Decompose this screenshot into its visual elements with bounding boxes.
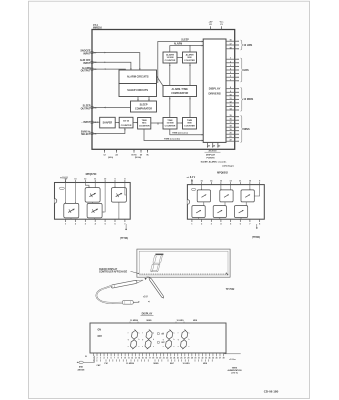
tick mark 137.88: [137, 359, 139, 361]
pin 33 board: [205, 353, 207, 356]
pin 1 bottom: [191, 219, 193, 222]
svg-text:MPQ6700: MPQ6700: [86, 173, 97, 176]
ground dot fig2: [125, 229, 127, 231]
tick mark 96.94: [96, 359, 98, 361]
pin 18 segment output: [226, 48, 239, 50]
svg-text:5: 5: [107, 358, 108, 360]
svg-text:29: 29: [191, 358, 193, 360]
svg-text:6: 6: [240, 223, 241, 225]
svg-text:11: 11: [229, 98, 231, 100]
block: time 10-min counter: [163, 118, 177, 130]
svg-text:CONTROLER AFFICHAGE: CONTROLER AFFICHAGE: [99, 271, 128, 274]
wire sleep circuits to comparator: [137, 97, 139, 102]
svg-text:1: 1: [191, 223, 192, 225]
right rail +5V: [224, 353, 241, 355]
pin 14 top: [65, 180, 67, 183]
svg-text:50/ 60: 50/ 60: [123, 121, 130, 123]
svg-text:36: 36: [216, 358, 218, 360]
svg-text:SLEEP CIRCUITS: SLEEP CIRCUITS: [127, 89, 148, 92]
pin tick 17: [91, 52, 93, 54]
tick mark 141.32: [140, 359, 142, 361]
pin 9 board: [121, 353, 123, 356]
pin 16 segment output: [226, 40, 239, 42]
pin 28 board: [187, 353, 189, 356]
svg-text:21: 21: [229, 136, 231, 138]
pin 1 segment output: [226, 58, 239, 60]
svg-text:16: 16: [229, 119, 231, 121]
block: 50/60 counter: [119, 117, 133, 128]
probe cable: [96, 286, 122, 303]
svg-text:OUTPUT: OUTPUT: [81, 70, 91, 73]
pin 11 top: [239, 182, 241, 185]
wire sleep circuits to comparator 2: [148, 97, 150, 102]
svg-text:DISPLAY: DISPLAY: [209, 87, 221, 91]
tick mark 119.76: [119, 359, 121, 361]
svg-text:10 HRS: 10 HRS: [182, 363, 190, 365]
wire connector to clip: [133, 301, 138, 303]
arrow label to strip: [131, 271, 140, 273]
svg-text:25: 25: [177, 358, 179, 360]
svg-text:11: 11: [239, 181, 241, 183]
pin tick 36: [91, 132, 93, 134]
pin 16 segment output: [226, 119, 239, 121]
arrow to anode: [77, 361, 79, 363]
pin tick 15: [91, 68, 93, 70]
pin 11 board: [128, 353, 130, 356]
pin select 60: [140, 149, 142, 152]
wire pin14 to Q3: [65, 183, 67, 204]
transistor Q8: [192, 206, 205, 218]
wire Q7 to Q10: [245, 202, 247, 206]
tick mark 181.76: [181, 359, 183, 361]
arrow at junction left: [148, 301, 150, 303]
pin 3 board: [100, 353, 102, 356]
pin 2 board: [96, 353, 98, 356]
svg-text:3: 3: [211, 223, 212, 225]
display module outline: [137, 249, 230, 277]
svg-text:17: 17: [229, 44, 231, 46]
tick mark 148.2: [147, 359, 149, 361]
tick mark 109.44: [108, 359, 110, 361]
brace group 10 MINS: [241, 88, 244, 112]
svg-text:16: 16: [191, 181, 193, 183]
svg-text:8: 8: [124, 178, 125, 180]
svg-text:10 HRS: 10 HRS: [176, 320, 184, 322]
svg-text:ALARM: ALARM: [174, 42, 182, 45]
pin 12 top: [84, 180, 86, 183]
svg-text:+5 V: +5 V: [143, 296, 148, 298]
digit minutes: [142, 329, 154, 349]
pin 6 segment output: [226, 76, 239, 78]
needle probe: [148, 276, 164, 298]
svg-text:22: 22: [229, 140, 231, 142]
svg-text:5: 5: [230, 72, 231, 74]
wire pin11 to Q1: [94, 183, 96, 188]
pin 11 segment output: [226, 98, 239, 100]
pin select 24: [116, 149, 118, 152]
svg-text:7: 7: [249, 223, 250, 225]
svg-text:19: 19: [229, 129, 231, 131]
brace group MINS: [241, 116, 244, 143]
pin 8 top: [124, 180, 126, 183]
svg-text:18: 18: [152, 358, 154, 360]
pin 20 segment output: [226, 133, 239, 135]
svg-text:37: 37: [219, 358, 221, 360]
pin 9 top: [114, 180, 116, 183]
block: display drivers: [203, 39, 226, 142]
resistor R (anode feed): [79, 361, 83, 363]
svg-text:18: 18: [229, 47, 231, 49]
svg-text:b: b: [139, 339, 140, 341]
IC outline (clock chip block diagram): [92, 30, 235, 150]
pin tick 14: [91, 106, 93, 108]
svg-text:12: 12: [84, 178, 86, 180]
svg-text:13: 13: [229, 105, 231, 107]
pin 32 board: [201, 353, 203, 356]
pin 30 display point: [217, 142, 219, 147]
tick mark 168.0: [167, 359, 169, 361]
block: time seconds counter: [138, 118, 151, 130]
pin 7 segment output: [226, 80, 239, 82]
test probe pen: [111, 279, 144, 288]
pin 13 top: [74, 180, 76, 183]
tick mark 201.88: [201, 359, 203, 361]
svg-text:18: 18: [94, 62, 96, 64]
pin 16 top: [191, 182, 193, 185]
pin 21 (top): [221, 26, 223, 29]
pin 6 bottom: [239, 219, 241, 222]
pin 14 top: [210, 182, 212, 185]
pin 7 bottom: [124, 219, 126, 222]
svg-text:ALARM CIRCUITS: ALARM CIRCUITS: [127, 76, 149, 79]
svg-text:31: 31: [198, 358, 200, 360]
svg-text:10 MIN: 10 MIN: [167, 57, 174, 59]
svg-text:DISPLAY: DISPLAY: [206, 154, 216, 157]
svg-text:ON: ON: [98, 330, 102, 332]
wire pin12 to Q6b: [230, 185, 232, 190]
svg-text:HRS: HRS: [243, 69, 249, 72]
wire to LED anode: [83, 356, 94, 363]
wire alarm off: [92, 62, 131, 70]
svg-text:7: 7: [114, 358, 115, 360]
svg-text:4: 4: [104, 357, 105, 360]
pin 17 segment output: [226, 44, 239, 46]
svg-text:TP 7002: TP 7002: [226, 289, 235, 291]
transistor Q9: [213, 206, 226, 218]
svg-text:36: 36: [94, 133, 96, 135]
wire time counter 1 to 2: [177, 122, 183, 124]
svg-text:13: 13: [74, 178, 76, 180]
svg-text:10 HRS: 10 HRS: [243, 44, 252, 47]
wire Q4 to pin4: [94, 218, 96, 219]
svg-text:b: b: [153, 339, 154, 341]
tick mark 212.2: [211, 359, 213, 361]
svg-text:7: 7: [124, 223, 125, 225]
brace group 10 HRS: [241, 40, 244, 50]
svg-text:2: 2: [230, 61, 231, 63]
transistor Q1: [85, 188, 100, 203]
package body: [187, 185, 264, 220]
svg-text:SEC: SEC: [142, 122, 147, 124]
svg-text:COUNTER: COUNTER: [121, 125, 132, 127]
seven segment digit in module: [151, 254, 164, 272]
svg-text:COMPARATOR: COMPARATOR: [135, 108, 152, 111]
wire snooze: [92, 53, 140, 70]
svg-text:13: 13: [220, 181, 222, 183]
tick mark 188.64: [188, 359, 190, 361]
svg-text:10 MINS: 10 MINS: [130, 320, 139, 322]
svg-text:17: 17: [229, 122, 231, 124]
svg-text:13: 13: [135, 358, 137, 360]
cable connector: [122, 301, 133, 305]
wire alarm circuits to comparator (diagonal): [157, 76, 164, 86]
svg-text:MM5316: MM5316: [93, 28, 103, 30]
pin 2 segment output: [226, 62, 239, 64]
svg-text:1: 1: [230, 58, 231, 60]
svg-text:17: 17: [94, 52, 96, 54]
svg-text:3: 3: [100, 358, 101, 360]
package body: [55, 183, 131, 220]
svg-text:~ INPUT: ~ INPUT: [81, 121, 91, 124]
node: seconds tap: [157, 123, 159, 125]
wire sleep output: [92, 107, 131, 109]
pin 7 bottom: [249, 219, 251, 222]
pin 20 board: [159, 353, 161, 356]
tick mark 93.5: [93, 359, 95, 361]
svg-text:(TT736): (TT736): [120, 238, 128, 240]
svg-text:MINS: MINS: [153, 363, 159, 365]
pin 28 display point: [207, 142, 209, 147]
svg-text:(affichage): (affichage): [223, 165, 234, 167]
net TIME (minutes): [170, 129, 203, 135]
pin 4 bottom: [94, 219, 96, 222]
svg-text:g: g: [163, 339, 164, 341]
block: alarm min counter: [183, 52, 197, 63]
wire comparator to alarm counter 1: [169, 63, 171, 86]
tick mark 171.44: [170, 359, 172, 361]
pin 31 board: [198, 353, 200, 356]
strip end mark: [226, 273, 228, 276]
pin 34 board: [208, 353, 210, 356]
pin 4 board: [103, 353, 105, 356]
svg-text:15: 15: [229, 115, 231, 117]
net SLEEP: [158, 42, 203, 84]
svg-text:6: 6: [111, 358, 112, 360]
svg-text:XT-4: XT-4: [93, 24, 99, 27]
svg-text:MIN: MIN: [188, 57, 192, 59]
pin 2 bottom: [74, 219, 76, 222]
svg-text:32: 32: [201, 358, 203, 360]
wire shaper to 50/60 counter: [115, 122, 119, 124]
pin 10 top: [249, 182, 251, 185]
svg-text:35: 35: [94, 122, 96, 124]
wire pin8 to Q2: [125, 183, 127, 196]
svg-text:+5 Vcc: +5 Vcc: [229, 359, 236, 361]
pin 27 board: [184, 353, 186, 356]
svg-text:15: 15: [94, 69, 96, 71]
svg-text:20: 20: [229, 133, 231, 135]
pin select 12: [104, 149, 106, 152]
wire pin13 to Q3: [74, 183, 76, 204]
link between alarm counters: [177, 57, 183, 59]
package notch: [187, 200, 189, 205]
svg-text:8: 8: [118, 358, 119, 360]
pin 22 segment output: [226, 140, 239, 142]
tick mark 205.32: [204, 359, 206, 361]
pin 5 segment output: [226, 73, 239, 75]
pin 15 segment output: [226, 116, 239, 118]
svg-text:COUNTER: COUNTER: [165, 60, 176, 62]
pin 13 top: [220, 182, 222, 185]
svg-text:SLEEP: SLEEP: [181, 39, 189, 41]
package notch: [55, 199, 57, 204]
pin 29 board: [191, 353, 193, 356]
svg-text:SEC: SEC: [170, 363, 175, 365]
digit 10-hours: [163, 329, 175, 349]
svg-text:b: b: [189, 339, 190, 341]
pin 5 bottom: [104, 219, 106, 222]
svg-text:35: 35: [212, 358, 214, 360]
svg-text:11: 11: [128, 358, 130, 360]
svg-text:HRS: HRS: [193, 320, 198, 322]
tick mark 100.38: [99, 359, 101, 361]
tick mark 158.44: [157, 359, 159, 361]
svg-text:TIME (seconds): TIME (seconds): [164, 138, 180, 140]
svg-text:29: 29: [213, 146, 215, 148]
svg-text:3: 3: [85, 223, 86, 225]
wire comparator to alarm counter 2: [189, 63, 191, 86]
svg-text:CHECK DISPLAY: CHECK DISPLAY: [99, 268, 118, 271]
svg-text:MIN: MIN: [188, 122, 192, 124]
svg-text:10 MINS: 10 MINS: [126, 363, 135, 365]
wire 50/60 select: [92, 128, 125, 134]
svg-text:g: g: [142, 339, 143, 341]
svg-text:(50 Hz): (50 Hz): [135, 157, 142, 159]
block: time min counter: [183, 118, 197, 130]
svg-text:10: 10: [249, 181, 251, 183]
tick mark 195.0: [194, 359, 196, 361]
pin 25 board: [177, 353, 179, 356]
pin 10 top: [104, 180, 106, 183]
svg-text:23: 23: [170, 358, 172, 360]
colon upper dot: [157, 332, 159, 334]
pin 3 segment output: [226, 65, 239, 67]
pin 6 board: [110, 353, 112, 356]
svg-text:+9V: +9V: [209, 22, 213, 24]
tick mark 106.0: [105, 359, 107, 361]
arrow at junction right: [138, 301, 140, 303]
display module inner frame: [139, 251, 228, 275]
svg-text:22: 22: [166, 358, 168, 360]
pin 10 board: [124, 353, 126, 356]
pin 3 bottom: [210, 219, 212, 222]
svg-text:INPUT: INPUT: [83, 53, 91, 56]
pin 11 top: [94, 180, 96, 183]
wire seconds counter to time counter 1: [151, 122, 163, 124]
transistor Q5: [197, 190, 210, 202]
ground dot fig3: [256, 227, 258, 229]
wire pin10 to Q7: [249, 185, 251, 190]
pin 36 board: [215, 353, 217, 356]
svg-text:30: 30: [194, 358, 196, 360]
svg-text:7: 7: [230, 79, 231, 81]
svg-text:CD-06 180: CD-06 180: [264, 389, 279, 393]
pin tick 18: [91, 61, 93, 63]
svg-text:15: 15: [142, 358, 144, 360]
pin 4 segment output: [226, 69, 239, 71]
svg-text:g: g: [128, 339, 129, 341]
pin 8 segment output: [226, 88, 239, 90]
tick mark 112.88: [112, 359, 114, 361]
wire time counter 1 to comparator: [169, 97, 171, 118]
pin 18 board: [152, 353, 154, 356]
svg-text:2: 2: [201, 223, 202, 225]
svg-text:9: 9: [230, 91, 231, 93]
svg-text:OUTPUT: OUTPUT: [81, 107, 91, 110]
pin 37 board: [219, 353, 221, 356]
pin 14 segment output: [226, 109, 239, 111]
svg-text:21: 21: [163, 358, 165, 360]
transistor Q2: [111, 188, 126, 203]
wire Q9 to pin4: [219, 218, 221, 220]
transistor Q4: [87, 203, 102, 218]
pin 9 top: [259, 182, 261, 185]
svg-text:HRS: HRS: [203, 363, 208, 365]
svg-text:+ 8.4 V: + 8.4 V: [188, 176, 196, 179]
wire pin12 to Q1: [85, 183, 89, 188]
svg-text:10: 10: [124, 358, 126, 360]
tick mark 155.0: [154, 359, 156, 361]
pin 16 board: [145, 353, 147, 356]
tick mark 126.64: [126, 359, 128, 361]
svg-text:DRIVERS: DRIVERS: [208, 91, 220, 95]
tick mark 123.2: [122, 359, 124, 361]
svg-text:12: 12: [229, 101, 231, 103]
pin 15 board: [142, 353, 144, 356]
tick mark 116.32: [115, 359, 117, 361]
svg-text:1: 1: [93, 358, 94, 360]
pin 23 board: [170, 353, 172, 356]
brace group HRS: [241, 58, 244, 82]
wire time counter 2 to comparator: [189, 97, 191, 118]
wire Q5 to Q8: [203, 202, 205, 206]
wire alarm output: [92, 68, 125, 71]
svg-text:COUNTER: COUNTER: [139, 126, 150, 128]
digit 10-minutes: [128, 329, 140, 349]
block: alarm/time comparator: [163, 86, 197, 97]
block: shaper: [100, 117, 116, 128]
svg-text:8: 8: [230, 87, 231, 89]
svg-text:ALARM / TIME: ALARM / TIME: [172, 88, 189, 91]
svg-text:9: 9: [114, 178, 115, 180]
pin 35 board: [212, 353, 214, 356]
pin select Vb: [147, 149, 149, 152]
pin 15 top: [201, 182, 203, 185]
svg-text:28: 28: [208, 146, 210, 148]
pin 10 segment output: [226, 95, 239, 97]
svg-text:INPUT: INPUT: [83, 62, 91, 65]
tick mark 161.88: [161, 359, 163, 361]
svg-text:20: 20: [159, 358, 161, 360]
svg-text:15: 15: [201, 181, 203, 183]
pin 26 board: [180, 353, 182, 356]
pin 8 board: [117, 353, 119, 356]
svg-text:12: 12: [230, 181, 232, 183]
pin 4 bottom: [220, 219, 222, 222]
wire Q8 to pin2: [198, 218, 200, 220]
svg-text:9: 9: [121, 358, 122, 360]
pin 24 board: [173, 353, 175, 356]
